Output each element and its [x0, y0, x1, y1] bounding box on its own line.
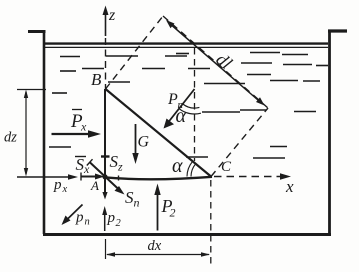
- tank left wall top flange: [28, 30, 46, 33]
- svg-text:n: n: [85, 217, 90, 228]
- svg-text:α: α: [176, 105, 187, 127]
- dx right arrowhead: [201, 252, 210, 257]
- lower alpha double arc at C: [191, 164, 196, 177]
- dashed construction line C to R: [211, 108, 268, 177]
- liquid surface line 1: [45, 42, 328, 44]
- dx dimension dashed extension below C: [210, 180, 212, 266]
- point A junction dot: [102, 174, 107, 179]
- dx dimension left extension line: [105, 239, 107, 259]
- upper alpha double arc: [183, 104, 200, 108]
- tank bottom: [43, 233, 331, 236]
- z axis arrowhead: [103, 6, 109, 16]
- G arrowhead: [132, 153, 138, 164]
- z axis solid arrow shaft: [105, 10, 107, 36]
- Sx tail tick: [80, 173, 82, 181]
- vertical reference dashed line for alpha: [194, 48, 196, 161]
- liquid surface line 2: [45, 46, 328, 48]
- p2 unit pressure arrow below A: [104, 211, 106, 231]
- P2 force arrow: [157, 193, 159, 231]
- svg-text:dx: dx: [148, 238, 162, 254]
- Sn arrowhead: [115, 186, 125, 195]
- pn unit pressure arrow: [66, 205, 83, 222]
- Sz lower stub below A: [104, 178, 106, 195]
- svg-text:2: 2: [116, 218, 122, 229]
- svg-text:dz: dz: [4, 130, 17, 146]
- svg-text:B: B: [91, 70, 102, 89]
- Pn arrowhead: [164, 119, 175, 129]
- svg-text:2: 2: [170, 206, 176, 220]
- Sz tail bar: [101, 155, 110, 157]
- dx left arrowhead: [106, 252, 115, 257]
- svg-text:x: x: [83, 162, 90, 176]
- tank left wall: [43, 31, 46, 235]
- Sz lower stub arrowhead: [102, 192, 107, 200]
- svg-text:C: C: [221, 159, 232, 175]
- Px force arrow: [52, 133, 90, 135]
- dashed construction line B to T: [106, 16, 164, 89]
- svg-text:z: z: [108, 7, 116, 24]
- svg-text:x: x: [80, 120, 87, 134]
- svg-text:z: z: [117, 160, 123, 174]
- px arrowhead: [68, 174, 78, 180]
- Sx arrowhead: [95, 174, 105, 180]
- G weight arrow: [135, 124, 137, 155]
- Sn stress arrow: [90, 162, 121, 191]
- triangle edge AC: [104, 177, 212, 179]
- tick mark on AC line: [118, 176, 120, 181]
- liquid dashes: [49, 53, 328, 159]
- svg-text:α: α: [172, 155, 183, 177]
- tank right wall top flange: [328, 29, 347, 32]
- svg-text:x: x: [285, 177, 294, 196]
- svg-text:p: p: [107, 210, 116, 226]
- Sz stress arrow shaft above A: [104, 157, 106, 177]
- svg-text:G: G: [138, 134, 150, 151]
- Sn tail tick: [87, 159, 93, 165]
- x axis arrowhead: [280, 173, 291, 179]
- Sx stress arrow: [81, 176, 99, 178]
- triangle edge AB: [104, 89, 106, 177]
- Pn force arrow: [167, 89, 195, 125]
- dl dimension line: [169, 23, 263, 104]
- triangle edge BC (hypotenuse): [106, 89, 212, 177]
- dl arrowhead lower: [256, 97, 265, 105]
- svg-text:A: A: [90, 178, 99, 193]
- p2 arrowhead: [102, 206, 107, 215]
- dz dimension vertical line: [25, 92, 27, 174]
- dashed construction line T to R: [163, 16, 268, 108]
- P2 arrowhead: [154, 184, 160, 196]
- svg-text:x: x: [62, 184, 68, 195]
- dz top arrowhead: [24, 90, 28, 99]
- z axis dashed segment: [105, 38, 107, 89]
- svg-text:dl: dl: [212, 49, 236, 73]
- svg-text:p: p: [75, 210, 84, 226]
- Px arrowhead: [88, 130, 101, 138]
- svg-text:n: n: [134, 196, 140, 210]
- dx dimension line: [107, 254, 209, 256]
- dz bottom arrowhead: [24, 168, 28, 177]
- dl arrowhead upper: [166, 20, 175, 28]
- px arrow with extension line: [17, 176, 72, 178]
- pn arrowhead: [62, 216, 71, 226]
- svg-text:p: p: [53, 177, 62, 193]
- x axis dashed segment: [214, 176, 280, 178]
- dz dimension top extension line: [17, 89, 46, 91]
- tank right wall: [328, 30, 331, 236]
